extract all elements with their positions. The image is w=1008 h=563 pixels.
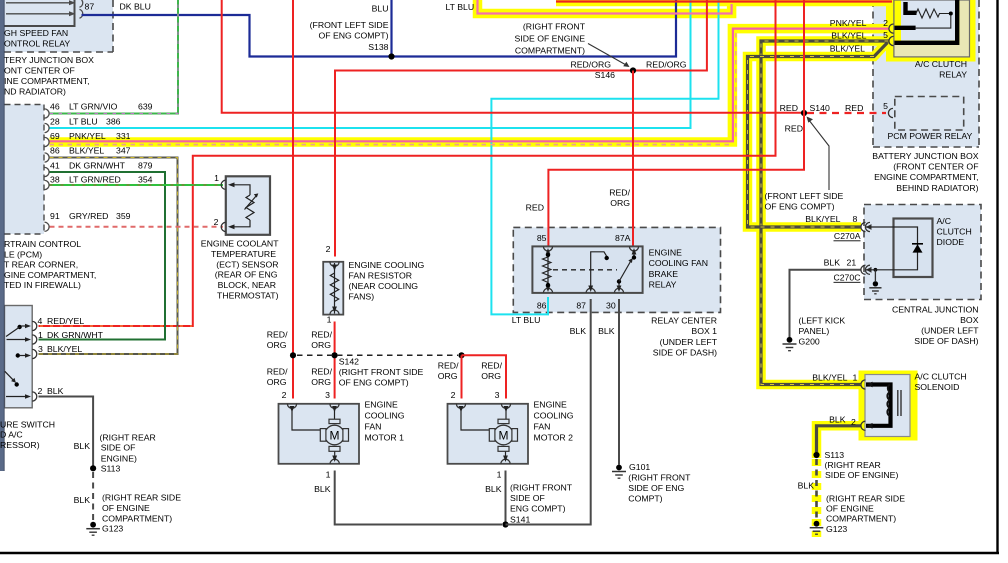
svg-text:BLK: BLK — [824, 258, 841, 268]
leader arrow to S140 — [807, 117, 830, 191]
svg-text:RED/YEL: RED/YEL — [47, 316, 84, 326]
wire RED vertical x=293 from top to motor 1 pin 2 — [292, 0, 294, 399]
wire BLK brake relay pin 30 to G101 — [618, 299, 620, 465]
svg-text:RED/: RED/ — [311, 366, 332, 376]
PCM pin arcs — [45, 109, 50, 231]
ground G101 — [612, 465, 626, 479]
svg-text:S146: S146 — [595, 70, 615, 80]
battery junction box (top left, dashed) — [0, 0, 113, 52]
wire BLK C270C pin 21 to G200 — [790, 270, 862, 337]
svg-text:PANEL): PANEL) — [799, 326, 830, 336]
svg-text:RED/: RED/ — [609, 188, 630, 198]
ground G123 right — [810, 521, 824, 534]
svg-text:BLK/YEL: BLK/YEL — [805, 214, 840, 224]
svg-text:ORG: ORG — [481, 371, 501, 381]
svg-text:PNK/YEL: PNK/YEL — [830, 18, 867, 28]
svg-text:(FRONT LEFT SIDE: (FRONT LEFT SIDE — [310, 20, 389, 30]
pressure switch internals — [5, 321, 37, 401]
svg-text:BLK/YEL: BLK/YEL — [812, 373, 847, 383]
svg-text:BLU: BLU — [372, 4, 389, 14]
svg-text:COOLING FAN: COOLING FAN — [649, 258, 708, 268]
svg-text:CLUTCH: CLUTCH — [937, 227, 972, 237]
svg-text:S140: S140 — [810, 103, 830, 113]
svg-text:354: 354 — [138, 175, 153, 185]
svg-text:M: M — [330, 428, 340, 442]
svg-text:ENGINE COOLANT: ENGINE COOLANT — [201, 239, 279, 249]
battery junction box (top right, dashed) — [873, 0, 979, 147]
svg-text:OF ENGINE: OF ENGINE — [102, 503, 150, 513]
svg-text:(LEFT KICK: (LEFT KICK — [799, 316, 846, 326]
svg-text:(RIGHT REAR: (RIGHT REAR — [100, 433, 156, 443]
svg-text:BLK/YEL: BLK/YEL — [47, 344, 82, 354]
svg-text:RED/: RED/ — [481, 361, 502, 371]
svg-text:BLK/YEL: BLK/YEL — [830, 44, 865, 54]
svg-text:ORG: ORG — [267, 377, 287, 387]
node S141 — [502, 521, 508, 527]
svg-text:1: 1 — [38, 330, 43, 340]
svg-text:LT GRN/VIO: LT GRN/VIO — [69, 102, 118, 112]
wire LT GRN/RED 354 PCM pin 38 to ECT pin 1 — [50, 184, 224, 186]
highlight band pnk/yel 331 main run — [50, 29, 889, 142]
svg-text:BLK: BLK — [570, 326, 587, 336]
svg-text:4: 4 — [38, 316, 43, 326]
svg-text:2: 2 — [214, 217, 219, 227]
svg-text:SIDE OF ENGINE: SIDE OF ENGINE — [515, 34, 586, 44]
svg-text:639: 639 — [138, 102, 153, 112]
wire RED from top through S140 down and to brake relay pin 85 — [548, 0, 804, 246]
svg-text:(RIGHT REAR SIDE: (RIGHT REAR SIDE — [826, 494, 905, 504]
svg-text:359: 359 — [116, 211, 131, 221]
dashed splice line S142 — [297, 354, 458, 356]
svg-text:ENGINE): ENGINE) — [101, 454, 137, 464]
svg-text:ENG COMPT): ENG COMPT) — [510, 504, 566, 514]
svg-text:(RIGHT FRONT SIDE: (RIGHT FRONT SIDE — [339, 367, 424, 377]
svg-text:DK BLU: DK BLU — [120, 2, 151, 12]
svg-text:BLOCK, NEAR: BLOCK, NEAR — [218, 280, 276, 290]
brake relay box — [532, 246, 642, 293]
svg-text:OF ENGINE: OF ENGINE — [826, 504, 874, 514]
node S142 — [332, 352, 338, 358]
svg-text:(RIGHT FRONT: (RIGHT FRONT — [510, 483, 573, 493]
svg-text:LE (PCM): LE (PCM) — [4, 249, 42, 259]
svg-text:D A/C: D A/C — [0, 430, 23, 440]
svg-text:85: 85 — [537, 233, 547, 243]
svg-text:ENGINE: ENGINE — [534, 399, 568, 409]
svg-text:OF ENG COMPT): OF ENG COMPT) — [765, 202, 835, 212]
svg-text:BLK: BLK — [829, 415, 846, 425]
arrow into connector C270C — [866, 267, 872, 273]
svg-text:RED/: RED/ — [267, 329, 288, 339]
svg-text:RED: RED — [526, 203, 544, 213]
svg-text:GRY/RED: GRY/RED — [69, 211, 108, 221]
svg-text:(RIGHT REAR SIDE: (RIGHT REAR SIDE — [102, 493, 181, 503]
svg-text:ENGINE COMPARTMENT,: ENGINE COMPARTMENT, — [874, 172, 978, 182]
svg-text:5: 5 — [883, 30, 888, 40]
svg-text:GH SPEED FAN: GH SPEED FAN — [4, 28, 68, 38]
wire BLK motor 1 pin 1 to S141 — [335, 471, 502, 525]
svg-text:FAN: FAN — [534, 422, 551, 432]
svg-text:28: 28 — [50, 116, 60, 126]
wire LT BLU 386 from PCM pin 28 — [50, 0, 691, 128]
svg-text:(UNDER LEFT: (UNDER LEFT — [921, 326, 979, 336]
high speed fan control relay (box, cut off at top) — [0, 0, 83, 26]
wire PNK/YEL 331 PCM pin 69 to A/C clutch relay pin 2 — [50, 29, 889, 142]
svg-text:91: 91 — [50, 211, 60, 221]
wire RED/ORG motor 2 pin 3 feed — [462, 355, 507, 398]
svg-text:(FRONT LEFT SIDE: (FRONT LEFT SIDE — [765, 191, 844, 201]
svg-text:A/C CLUTCH: A/C CLUTCH — [915, 59, 967, 69]
svg-text:MOTOR 1: MOTOR 1 — [365, 433, 405, 443]
svg-text:(RIGHT FRONT: (RIGHT FRONT — [628, 473, 691, 483]
svg-text:3: 3 — [325, 390, 330, 400]
svg-text:RED/: RED/ — [438, 361, 459, 371]
pressure switch box (left) — [5, 306, 33, 408]
svg-text:TED IN FIREWALL): TED IN FIREWALL) — [4, 280, 81, 290]
svg-text:C270A: C270A — [834, 231, 861, 241]
node S138 — [388, 53, 394, 59]
svg-text:2: 2 — [38, 386, 43, 396]
wire BLK pressure switch pin 2 to S113 — [39, 397, 94, 466]
svg-text:RED: RED — [785, 124, 803, 134]
wire DK BLU drop from top to S138 — [390, 0, 392, 57]
ground G123 left — [86, 522, 100, 535]
wire DK BLU from relay pin 87 to S138 and up — [82, 0, 677, 57]
svg-text:(RIGHT REAR: (RIGHT REAR — [825, 460, 881, 470]
svg-text:RELAY: RELAY — [939, 70, 967, 80]
PCM power relay pin 5 arc — [888, 108, 893, 117]
svg-text:1: 1 — [326, 469, 331, 479]
svg-text:A/C CLUTCH: A/C CLUTCH — [915, 372, 967, 382]
svg-text:3: 3 — [38, 344, 43, 354]
svg-text:BLK: BLK — [74, 495, 91, 505]
svg-text:SIDE OF ENG: SIDE OF ENG — [628, 483, 684, 493]
engine cooling fan resistor box — [323, 262, 343, 315]
svg-text:ENGINE: ENGINE — [365, 399, 399, 409]
node S113 right — [813, 452, 819, 458]
svg-text:G123: G123 — [102, 524, 123, 534]
svg-text:S142: S142 — [339, 356, 359, 366]
svg-text:86: 86 — [50, 146, 60, 156]
svg-text:69: 69 — [50, 131, 60, 141]
A/C clutch relay internals — [889, 0, 957, 46]
node S146 — [630, 67, 636, 73]
svg-text:BLK: BLK — [47, 386, 64, 396]
svg-text:ONTROL RELAY: ONTROL RELAY — [4, 38, 70, 48]
svg-text:41: 41 — [50, 160, 60, 170]
node S113 left — [90, 465, 96, 471]
ECT sensor box — [221, 176, 270, 235]
svg-text:TERY JUNCTION BOX: TERY JUNCTION BOX — [4, 55, 94, 65]
svg-text:BLK: BLK — [74, 441, 91, 451]
svg-text:ORG: ORG — [311, 377, 331, 387]
svg-text:BLK: BLK — [598, 326, 615, 336]
highlight band pnk/yel branch wire — [478, 0, 732, 14]
wire RED/YEL pressure switch pin 4 up and across to top right — [39, 0, 776, 326]
highlight band blk/yel relay pin5 to solenoid pin 1 — [761, 41, 889, 385]
svg-text:RED/ORG: RED/ORG — [646, 60, 687, 70]
svg-text:MOTOR 2: MOTOR 2 — [534, 433, 574, 443]
svg-text:2: 2 — [851, 417, 856, 427]
svg-text:COOLING: COOLING — [365, 410, 405, 420]
svg-text:46: 46 — [50, 102, 60, 112]
wire RED vertical into S140 line — [222, 0, 802, 113]
highlight band blk/yel diagonal to diode pin 8 — [748, 44, 887, 228]
wire BLK dashed S113 to G123 right — [815, 459, 818, 521]
wire BLK motor 2 pin 1 to S141 — [505, 471, 507, 525]
svg-text:COOLING: COOLING — [534, 410, 574, 420]
svg-text:BEHIND RADIATOR): BEHIND RADIATOR) — [896, 183, 978, 193]
wire LT BLU from top to brake relay pin 86 — [491, 0, 718, 314]
svg-text:879: 879 — [138, 160, 153, 170]
page border right — [996, 0, 998, 554]
leader arrow to S146 — [588, 44, 630, 68]
svg-text:3: 3 — [495, 390, 500, 400]
highlight band solenoid pin2 blk to S113 — [817, 426, 862, 458]
svg-text:SIDE OF DASH): SIDE OF DASH) — [914, 336, 978, 346]
svg-text:BLK: BLK — [485, 484, 502, 494]
wire BLK/YEL 347 PCM pin 86 to pressure switch pin 3 — [39, 158, 178, 355]
svg-text:ENGINE COOLING: ENGINE COOLING — [349, 260, 425, 270]
svg-text:OF ENG COMPT): OF ENG COMPT) — [319, 31, 389, 41]
svg-text:(ECT) SENSOR: (ECT) SENSOR — [216, 259, 278, 269]
svg-text:RED: RED — [845, 103, 863, 113]
svg-text:T REAR CORNER,: T REAR CORNER, — [4, 260, 78, 270]
node splice on motor1 pin 2 wire — [290, 352, 296, 358]
wire BLK S141 to brake relay pin 87 — [506, 299, 591, 525]
svg-text:87: 87 — [85, 2, 95, 12]
highlight band top red feed — [556, 0, 892, 6]
svg-text:SIDE OF ENGINE): SIDE OF ENGINE) — [825, 470, 898, 480]
svg-text:BLK/YEL: BLK/YEL — [831, 31, 866, 41]
svg-text:COMPT): COMPT) — [628, 494, 662, 504]
svg-text:A/C: A/C — [937, 216, 951, 226]
wire RED/ORG S146 down to brake relay pin 87A — [632, 71, 634, 246]
svg-text:DIODE: DIODE — [937, 237, 965, 247]
wire BLK A/C clutch solenoid pin 2 to S113 — [817, 426, 862, 452]
svg-text:RELAY CENTER: RELAY CENTER — [651, 315, 717, 325]
A/C clutch relay highlighted box — [886, 0, 976, 62]
svg-text:87: 87 — [576, 301, 586, 311]
svg-text:RELAY: RELAY — [649, 280, 677, 290]
svg-text:BLK/YEL: BLK/YEL — [69, 146, 104, 156]
svg-text:2: 2 — [883, 18, 888, 28]
svg-text:ORG: ORG — [311, 340, 331, 350]
svg-text:RED/: RED/ — [311, 329, 332, 339]
PCM connector box (dashed, left) — [5, 105, 45, 235]
svg-text:S138: S138 — [368, 42, 388, 52]
svg-text:RTRAIN CONTROL: RTRAIN CONTROL — [4, 239, 81, 249]
wire BLK/YEL relay pin 5 down to A/C clutch solenoid pin 1 — [761, 41, 889, 385]
relay center box 1 (dashed) — [513, 227, 720, 312]
highlight dashes S113 to G123 ground wire — [812, 459, 822, 537]
svg-text:RED/ORG: RED/ORG — [570, 60, 611, 70]
svg-text:COMPARTMENT): COMPARTMENT) — [515, 46, 585, 56]
wire BLK/YEL second from relay pin 5 to diode connector C270A pin 8 — [748, 43, 888, 228]
wire RED/ORG resistor pin 1 to S142 and motor 1 pin 3 — [334, 322, 336, 399]
svg-text:G101: G101 — [629, 462, 650, 472]
svg-text:COMPARTMENT): COMPARTMENT) — [826, 514, 896, 524]
svg-text:G123: G123 — [826, 524, 847, 534]
wire RED/ORG motor 2 pin 2 drop — [461, 355, 463, 398]
svg-text:TEMPERATURE: TEMPERATURE — [211, 249, 276, 259]
engine cooling fan motor 2 box — [448, 404, 529, 464]
svg-text:S113: S113 — [825, 450, 845, 460]
svg-text:347: 347 — [116, 146, 131, 156]
ground inside central junction box on pin 21 wire — [869, 268, 881, 294]
svg-text:INE COMPARTMENT,: INE COMPARTMENT, — [4, 76, 90, 86]
svg-text:2: 2 — [282, 390, 287, 400]
svg-text:30: 30 — [606, 301, 616, 311]
svg-text:GINE COMPARTMENT,: GINE COMPARTMENT, — [4, 270, 96, 280]
svg-text:ORG: ORG — [610, 198, 630, 208]
arrow into connector C270A — [866, 224, 872, 230]
svg-text:SOLENOID: SOLENOID — [915, 382, 960, 392]
svg-text:ORG: ORG — [438, 371, 458, 381]
svg-text:M: M — [499, 428, 509, 442]
svg-text:38: 38 — [50, 175, 60, 185]
svg-text:87A: 87A — [615, 233, 631, 243]
svg-text:BRAKE: BRAKE — [649, 269, 679, 279]
svg-text:G200: G200 — [799, 337, 820, 347]
svg-text:RESSOR): RESSOR) — [0, 440, 40, 450]
svg-text:FAN: FAN — [365, 422, 382, 432]
ground G200 — [783, 337, 797, 351]
svg-text:LT BLU: LT BLU — [512, 315, 541, 325]
svg-text:LT BLU: LT BLU — [69, 116, 98, 126]
svg-text:(REAR OF ENG: (REAR OF ENG — [215, 270, 278, 280]
svg-text:2: 2 — [326, 244, 331, 254]
svg-text:ENGINE: ENGINE — [649, 248, 683, 258]
svg-text:(NEAR COOLING: (NEAR COOLING — [349, 281, 419, 291]
wire RED top to S146 horizontal — [335, 0, 707, 257]
svg-text:BOX: BOX — [960, 315, 979, 325]
svg-text:21: 21 — [847, 258, 857, 268]
wire GRY/RED 359 dashed PCM pin 91 to ECT pin 2 — [50, 226, 224, 228]
svg-text:1: 1 — [853, 373, 858, 383]
node S140 — [801, 110, 807, 116]
A/C clutch solenoid box — [861, 375, 910, 437]
node splice motor 2 feed — [458, 352, 464, 358]
svg-text:1: 1 — [214, 173, 219, 183]
svg-text:1: 1 — [327, 314, 332, 324]
svg-text:BLK: BLK — [314, 484, 331, 494]
wire LT GRN/VIO 639 from PCM pin 46 — [50, 0, 179, 114]
wire BLK dashed S113 to G123 — [92, 472, 94, 522]
svg-text:SIDE OF: SIDE OF — [510, 493, 545, 503]
svg-text:386: 386 — [106, 116, 121, 126]
svg-text:CENTRAL JUNCTION: CENTRAL JUNCTION — [892, 305, 979, 315]
svg-text:(RIGHT FRONT: (RIGHT FRONT — [523, 22, 586, 32]
engine cooling fan motor 1 box — [279, 404, 360, 464]
svg-text:DK GRN/WHT: DK GRN/WHT — [47, 330, 104, 340]
svg-text:BOX 1: BOX 1 — [691, 326, 717, 336]
svg-text:5: 5 — [883, 101, 888, 111]
svg-text:LT BLU: LT BLU — [446, 2, 475, 12]
svg-text:FAN RESISTOR: FAN RESISTOR — [349, 271, 413, 281]
svg-text:SIDE OF DASH): SIDE OF DASH) — [653, 348, 717, 358]
wire RED dashed S140 to PCM power relay pin 5 — [807, 112, 886, 114]
svg-text:RED/: RED/ — [267, 366, 288, 376]
svg-text:(UNDER LEFT: (UNDER LEFT — [660, 337, 718, 347]
A/C clutch solenoid highlight halo — [859, 371, 918, 441]
svg-text:BATTERY JUNCTION BOX: BATTERY JUNCTION BOX — [872, 151, 978, 161]
A/C clutch diode box — [861, 219, 933, 278]
svg-text:S113: S113 — [101, 463, 121, 473]
page border bottom — [0, 552, 999, 555]
svg-text:SIDE OF: SIDE OF — [101, 443, 136, 453]
svg-text:(FRONT CENTER OF: (FRONT CENTER OF — [893, 162, 978, 172]
svg-text:LT GRN/RED: LT GRN/RED — [69, 175, 121, 185]
svg-text:FANS): FANS) — [349, 292, 375, 302]
svg-text:BLK: BLK — [798, 481, 815, 491]
svg-text:ND RADIATOR): ND RADIATOR) — [4, 87, 66, 97]
svg-text:ONT CENTER OF: ONT CENTER OF — [4, 66, 75, 76]
svg-text:RED: RED — [780, 103, 798, 113]
svg-text:2: 2 — [451, 390, 456, 400]
svg-text:OF ENG COMPT): OF ENG COMPT) — [339, 377, 409, 387]
svg-text:8: 8 — [853, 214, 858, 224]
wire DK GRN/WHT 879 PCM pin 41 to pressure switch pin 1 — [39, 172, 166, 340]
svg-text:URE SWITCH: URE SWITCH — [0, 419, 55, 429]
wire PNK/YEL branch at top — [478, 0, 732, 14]
svg-text:1: 1 — [497, 469, 502, 479]
svg-text:PCM POWER RELAY: PCM POWER RELAY — [888, 131, 973, 141]
wire RED top cut-off feed — [556, 0, 892, 2]
svg-text:C270C: C270C — [833, 273, 860, 283]
svg-text:THERMOSTAT): THERMOSTAT) — [217, 291, 279, 301]
svg-text:S141: S141 — [510, 515, 530, 525]
svg-text:331: 331 — [116, 131, 131, 141]
svg-text:PNK/YEL: PNK/YEL — [69, 131, 106, 141]
central junction box (dashed) — [864, 205, 981, 300]
svg-text:86: 86 — [537, 301, 547, 311]
PCM power relay box (dashed) — [895, 97, 964, 131]
svg-text:ORG: ORG — [267, 340, 287, 350]
svg-text:COMPARTMENT): COMPARTMENT) — [102, 514, 172, 524]
dark slate bar along left edge — [0, 0, 5, 471]
svg-text:DK GRN/WHT: DK GRN/WHT — [69, 160, 126, 170]
